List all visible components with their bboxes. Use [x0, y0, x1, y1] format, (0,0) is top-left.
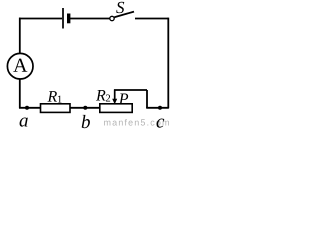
node a junction dot	[25, 106, 29, 110]
wire battery to switch	[70, 18, 110, 20]
label R1	[47, 91, 61, 102]
wire left vertical upper	[19, 18, 21, 54]
ammeter A1 circle	[7, 53, 33, 79]
battery B1 long plate	[62, 8, 64, 29]
label P	[119, 94, 128, 104]
wire R1 to R2	[70, 107, 100, 109]
ammeter A1 letter	[13, 59, 27, 72]
wire top-left horizontal	[19, 18, 62, 20]
rheostat slider arrow P	[114, 90, 116, 100]
switch S pivot circle	[110, 16, 114, 20]
wire left vertical lower	[19, 79, 21, 108]
label R2	[96, 90, 110, 101]
label b	[82, 115, 90, 128]
wire slider horizontal	[114, 89, 147, 91]
node c junction dot	[158, 106, 162, 110]
node b junction dot	[83, 106, 87, 110]
label S	[116, 2, 124, 13]
wire bottom-left to R1	[19, 107, 41, 109]
label c	[157, 119, 165, 128]
resistor R1	[41, 104, 71, 113]
wire slider vertical down	[146, 90, 148, 108]
battery B1 short thick plate	[67, 14, 70, 24]
wire switch to top-right corner	[135, 18, 169, 20]
switch S blade	[114, 12, 134, 18]
wire right vertical	[167, 18, 169, 109]
label a	[20, 118, 28, 127]
watermark manfen5.com	[104, 119, 169, 126]
wire bottom-right	[146, 107, 169, 109]
rheostat R2 body	[100, 104, 132, 113]
